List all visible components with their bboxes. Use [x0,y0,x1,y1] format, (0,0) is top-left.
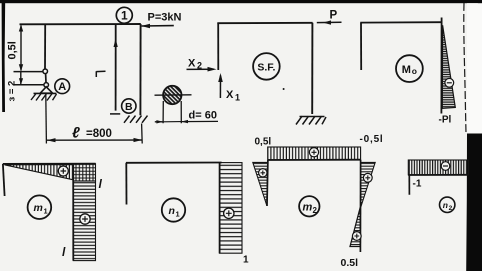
scan border left [2,0,6,112]
m2 left stub column [266,160,269,206]
n2 beam line [408,174,468,176]
svg-text:B: B [125,101,133,113]
Mo triangle sign minus circled [445,78,454,87]
svg-text:1: 1 [121,9,128,23]
label m2 circled [299,196,319,216]
frame2 top beam [217,22,312,24]
scan black bar bottom-right [466,134,482,271]
svg-text:A: A [58,81,66,93]
Mo diagram triangle on column [442,25,455,108]
n2 minus sign [441,162,450,171]
dimension з=2 vertical line [20,72,22,84]
m1 plus sign on column [80,214,90,224]
dimension 0,5l bottom arrowhead [19,64,23,71]
tick mark l on inner column [96,71,105,77]
m1 column bar (hatched) [73,181,95,261]
white page margin top-right [467,3,482,133]
frame1 hinge circle [43,69,48,74]
svg-text:-1: -1 [413,179,422,190]
force X1 arrow [219,76,221,99]
force P arrow (frame2) [317,21,342,23]
n1 left stub [125,163,127,205]
node label A circled [55,79,70,94]
svg-text:P: P [330,10,338,22]
dimension tick at hinge level [14,71,43,73]
m2 plus sign on beam [309,148,318,157]
svg-text:n: n [443,200,448,210]
m1 beam line [3,163,96,165]
svg-text:m: m [34,202,43,214]
frame1 left hanger column [44,24,46,69]
m2 beam bar above (hatched) [268,147,361,160]
l=800 left arrowhead [47,138,56,142]
svg-text:P=3kN: P=3kN [148,12,182,24]
m1 beam triangle (hatched) [5,165,74,180]
force X2 arrow [187,68,215,70]
svg-text:=800: =800 [86,128,112,140]
section mark 1 circled [116,7,132,23]
extension line from A down to l=800 dim [45,95,48,144]
frame2 support hatching [296,116,326,124]
frame1 inner column [115,24,117,110]
n1 column bar (hatched) [220,163,242,254]
label m1 circled [28,195,52,219]
svg-text:o: o [412,66,417,76]
n1 column line [219,163,221,254]
frame2 left stub column [217,23,219,70]
n2 left stub [408,175,410,195]
n1 beam line [126,162,222,164]
label S.F. circled [253,53,280,80]
svg-text:1: 1 [243,255,249,266]
dimension 0,5l top arrowhead [19,25,23,32]
extension line under B [141,124,144,144]
svg-text:1: 1 [235,93,240,103]
section centerline [155,94,192,96]
m2 left plus sign [259,169,267,177]
scan border top [0,0,482,3]
svg-text:0.5l: 0.5l [341,257,359,269]
scan border top-right corner blob [478,0,482,10]
svg-text:-0,5l: -0,5l [360,134,384,145]
n2 beam bar above (hatched) [408,160,468,175]
support A ground line [34,92,57,94]
frame1 inner column top arrowhead [114,39,118,48]
m2 bottom plus sign [352,232,361,241]
l=800 right arrowhead [134,138,143,142]
svg-text:2: 2 [313,206,318,215]
svg-text:d= 60: d= 60 [189,110,217,122]
svg-text:з = 2: з = 2 [7,81,18,102]
section circle hatched [163,86,181,104]
dimension l=800 line [47,139,143,141]
support B hatching [124,116,148,123]
d=60 dimension line with outside arrows [155,120,218,122]
svg-text:2: 2 [449,205,453,212]
frame1 inner column bottom tick [110,113,120,115]
scan page-edge line right [464,3,466,133]
support A pin circle [44,83,49,88]
svg-text:m: m [303,202,313,214]
force P=3kN arrow [142,25,174,27]
svg-text:S.F.: S.F. [257,62,275,74]
label Mo circled [396,55,423,82]
frame3 top beam [360,21,442,23]
frame3 left stub column [360,23,362,70]
m1 column bar crosshatched corner [73,164,95,181]
m2 right column [359,160,361,252]
svg-text:n: n [169,205,175,217]
n1 plus sign [224,208,234,218]
dimension з=2 bottom arrowhead [19,78,23,84]
svg-text:ℓ: ℓ [72,125,80,142]
label n2 circled [440,197,455,212]
svg-text:2: 2 [197,61,202,71]
svg-text:0,5l: 0,5l [255,137,272,148]
node label B circled [122,99,136,113]
m2 left triangle (hatched) [253,162,268,205]
dimension tick at support level [14,84,44,86]
m2 right top triangle (hatched) [361,162,376,207]
frame3 right column [440,18,442,114]
dimension 0,5l vertical line [20,26,22,71]
stray dot [283,88,285,90]
frame1 top beam [20,23,141,25]
support A triangle [40,87,52,93]
m1 left stub [3,164,5,196]
svg-text:-Pl: -Pl [439,115,452,126]
svg-text:1: 1 [44,207,48,216]
svg-text:X: X [188,58,196,70]
m2 right bottom triangle (hatched) [350,207,360,247]
frame2 right column [311,23,313,114]
m1 column line [72,164,74,261]
frame1 link bar to support [45,74,47,83]
frame1 right column [139,24,141,115]
svg-text:0,5l: 0,5l [7,41,19,59]
svg-text:M: M [402,64,411,76]
svg-text:X: X [226,89,234,101]
m1 plus sign on beam [58,166,68,176]
m2 right top plus sign [363,173,372,182]
svg-text:1: 1 [176,210,180,219]
section extension lines [163,101,181,123]
support A hatching [31,94,57,101]
label n1 circled [162,198,185,221]
m2 beam line [268,159,361,161]
